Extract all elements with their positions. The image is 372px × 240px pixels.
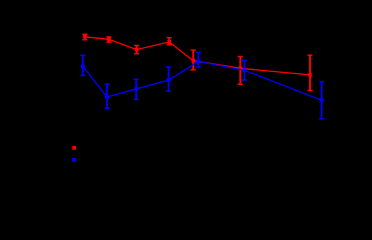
red marker M7 [308, 73, 312, 77]
blue errorbar F3 [134, 79, 139, 99]
red errorbar E5 [191, 50, 196, 70]
red errorbar E6 [238, 57, 243, 85]
red marker M1 (filled square) [83, 35, 87, 39]
blue marker N4 [166, 78, 170, 82]
blue errorbar F6 [242, 60, 247, 80]
red errorbar E2 [106, 37, 111, 42]
blue errorbar F7 [319, 82, 324, 119]
blue errorbar F4 [166, 67, 171, 91]
blue marker N2 [105, 95, 109, 99]
blue errorbar F5 [196, 52, 201, 67]
blue errorbar F1 [80, 55, 85, 75]
legend blue marker (filled square) [72, 158, 76, 162]
blue errorbar F2 [105, 84, 110, 108]
blue marker N5 [196, 59, 200, 63]
red errorbar E3 [134, 46, 139, 54]
red marker M6 [239, 67, 243, 71]
red errorbar E1 [82, 34, 87, 39]
red marker M3 [135, 48, 139, 52]
blue series polyline [83, 61, 322, 100]
red errorbar E7 [308, 55, 313, 90]
blue marker N1 (filled circle) [81, 64, 85, 68]
red marker M5 [191, 59, 195, 63]
red errorbar E4 [167, 38, 172, 45]
blue marker N6 [242, 68, 246, 72]
blue marker N7 [319, 98, 323, 102]
red marker M4 [167, 40, 171, 44]
legend red marker (filled square) [72, 146, 76, 150]
red marker M2 [107, 38, 111, 42]
blue marker N3 [134, 87, 138, 91]
red series polyline [85, 37, 310, 75]
